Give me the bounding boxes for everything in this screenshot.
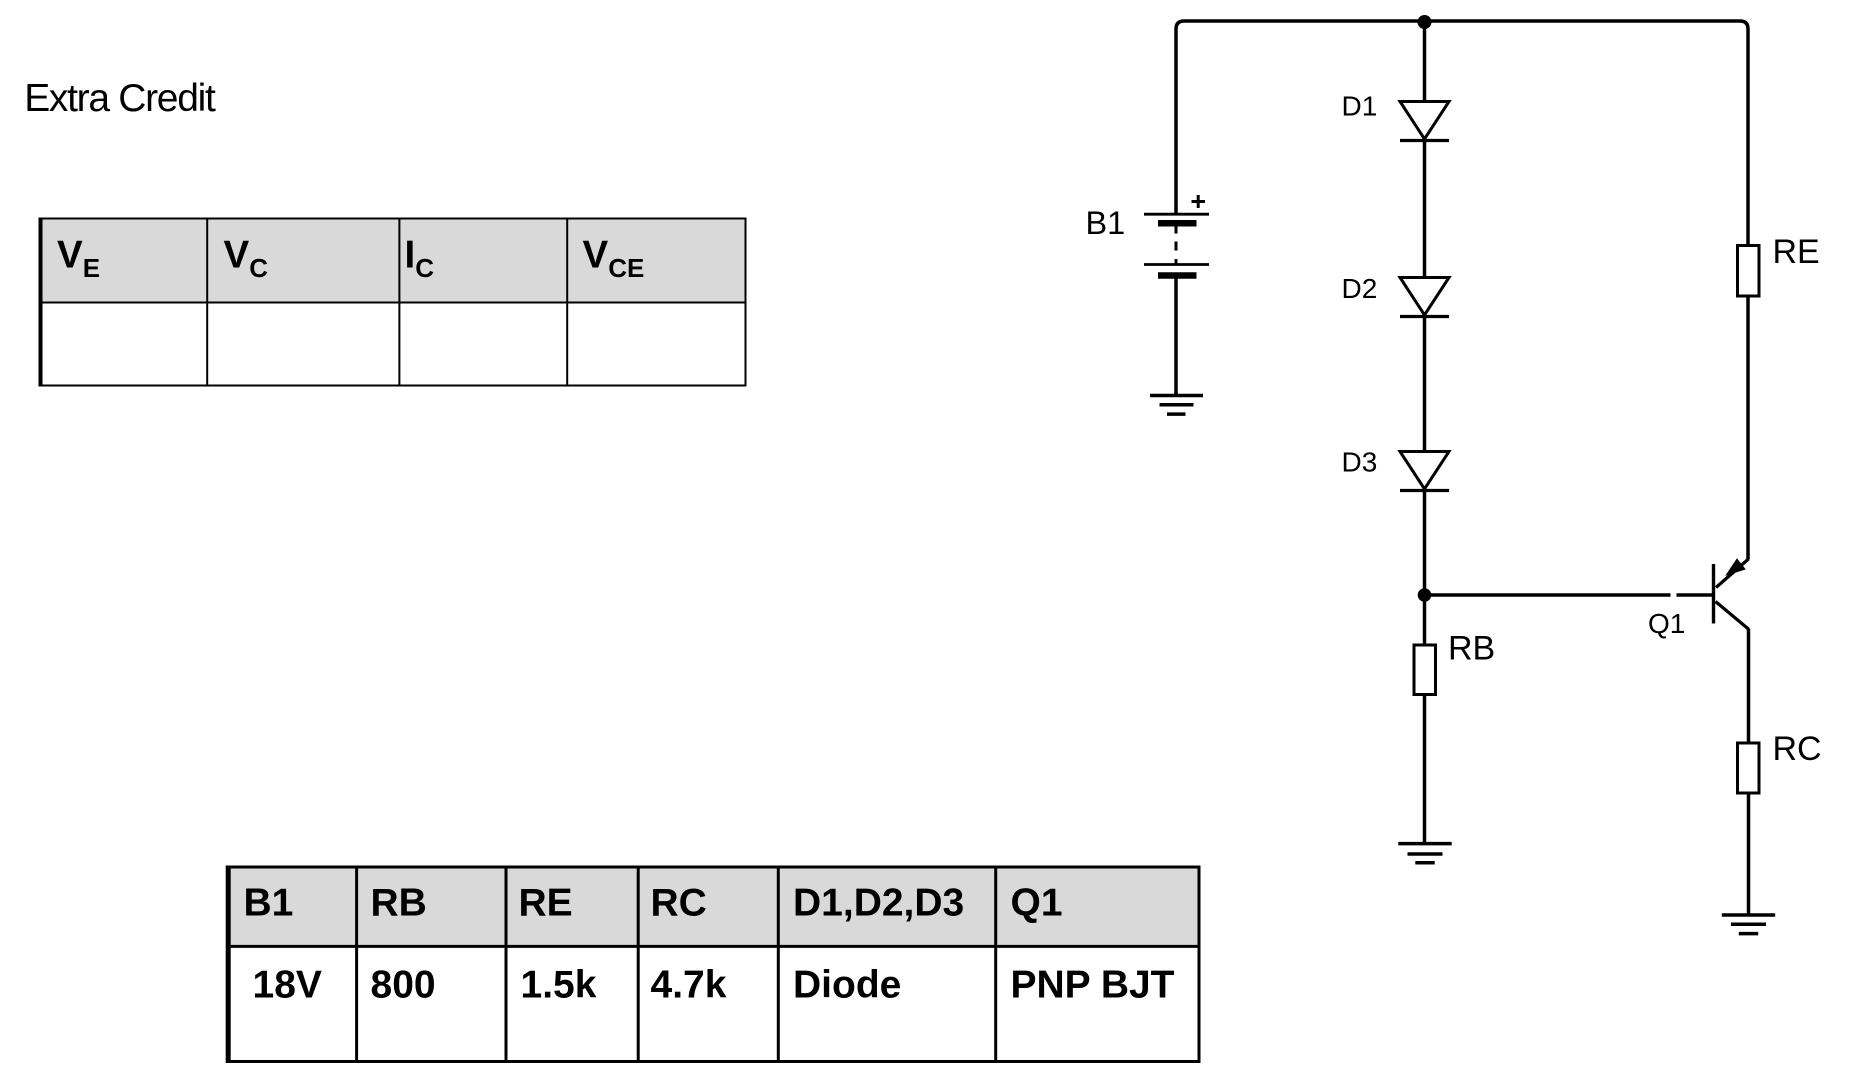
svg-text:B1: B1 (244, 882, 294, 925)
svg-text:Extra Credit: Extra Credit (24, 77, 216, 120)
svg-text:18V: 18V (253, 964, 322, 1007)
svg-text:RE: RE (519, 882, 573, 925)
svg-text:800: 800 (371, 964, 436, 1007)
svg-text:RB: RB (371, 882, 427, 925)
svg-text:Diode: Diode (793, 964, 901, 1007)
svg-text:Q1: Q1 (1648, 608, 1685, 639)
svg-text:B1: B1 (1086, 205, 1126, 241)
svg-text:RB: RB (1448, 630, 1495, 668)
svg-text:D1: D1 (1342, 91, 1378, 122)
svg-text:RE: RE (1773, 233, 1820, 271)
svg-text:Q1: Q1 (1011, 882, 1063, 925)
svg-text:4.7k: 4.7k (651, 964, 727, 1007)
svg-text:D1,D2,D3: D1,D2,D3 (793, 882, 964, 925)
svg-text:D3: D3 (1342, 447, 1378, 478)
svg-text:D2: D2 (1342, 273, 1378, 304)
svg-text:RC: RC (651, 882, 707, 925)
svg-text:RC: RC (1773, 730, 1822, 768)
svg-text:PNP BJT: PNP BJT (1011, 964, 1175, 1007)
svg-text:1.5k: 1.5k (521, 964, 597, 1007)
